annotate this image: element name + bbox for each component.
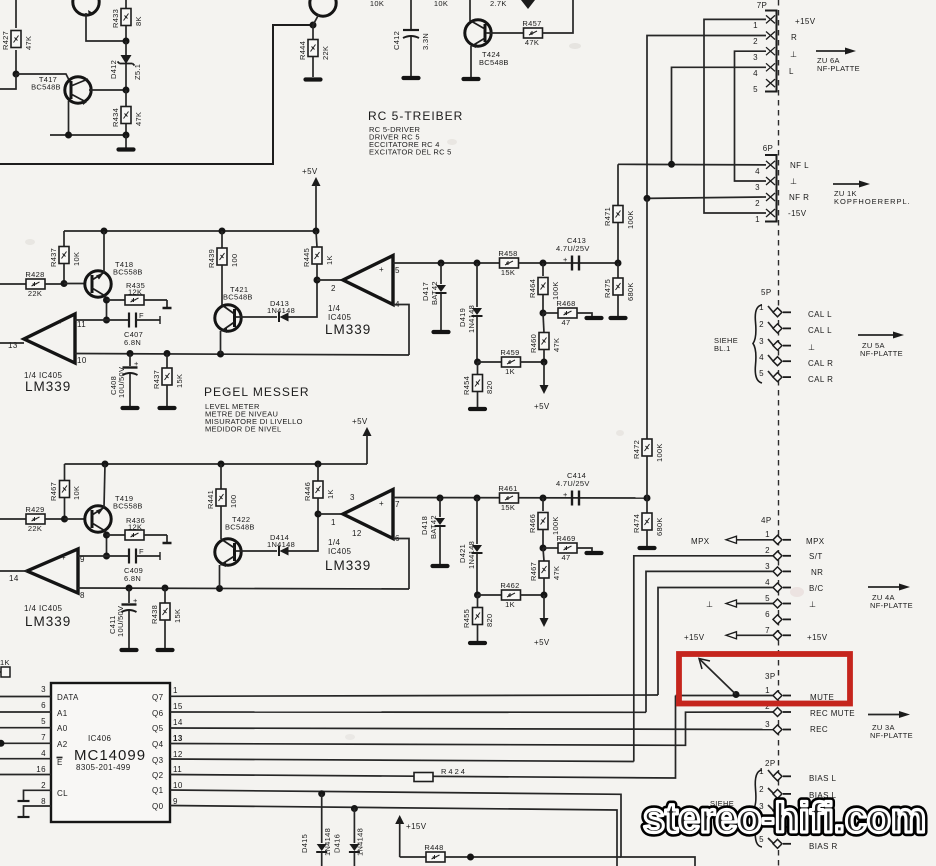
- wire: D414 to comparator node: [289, 514, 319, 551]
- resistor R448: [424, 843, 621, 862]
- node: rail/R446: [315, 461, 322, 468]
- svg-text:R471: R471: [603, 207, 612, 226]
- pin 2 of 2P (BIAS L): [759, 785, 791, 798]
- pin 3 of 3P (REC): [765, 720, 791, 734]
- diode D421 1N4148: [458, 498, 483, 595]
- wire: +15V to R448 row: [400, 856, 427, 858]
- svg-text:+5V: +5V: [534, 638, 550, 647]
- wire: T417 collector to node: [89, 89, 126, 91]
- wire: long rail y=164 to RC5 stage: [0, 25, 313, 164]
- svg-text:820: 820: [485, 381, 494, 394]
- IC406 MC14099 box: [51, 683, 170, 822]
- svg-text:1K: 1K: [326, 489, 335, 499]
- svg-text:CAL R: CAL R: [808, 375, 833, 384]
- svg-text:+15V: +15V: [406, 822, 427, 831]
- svg-text:NF-PLATTE: NF-PLATTE: [870, 601, 913, 610]
- svg-text:+5V: +5V: [534, 402, 550, 411]
- transistor T419: [85, 494, 143, 532]
- wire: Q2 row to MUTE riser: [170, 696, 676, 779]
- resistor R474: [632, 498, 664, 546]
- svg-text:+: +: [133, 596, 138, 605]
- connector 6P bracket: [763, 144, 777, 222]
- node: +5V stub junction: [541, 359, 548, 366]
- svg-text:IC405: IC405: [328, 313, 351, 322]
- svg-text:3: 3: [753, 53, 758, 62]
- svg-text:1: 1: [753, 21, 758, 30]
- svg-text:4: 4: [753, 69, 758, 78]
- node: +5V stub junction (lower): [541, 592, 548, 599]
- ground below R455: [470, 642, 485, 644]
- svg-text:12: 12: [352, 529, 362, 538]
- svg-text:A1: A1: [57, 709, 68, 718]
- red highlight rectangle: [679, 654, 850, 704]
- node: R438: [162, 585, 169, 592]
- svg-text:IC405: IC405: [328, 547, 351, 556]
- svg-text:NR: NR: [811, 568, 823, 577]
- wire: 7P pin4 (L) down to NF L node: [672, 67, 767, 164]
- ground below R434: [125, 135, 127, 148]
- svg-text:10U/50V: 10U/50V: [117, 367, 126, 398]
- svg-text:1: 1: [173, 686, 178, 695]
- svg-text:2.7K: 2.7K: [490, 0, 507, 8]
- svg-text:10: 10: [173, 781, 183, 790]
- svg-text:⊥: ⊥: [790, 177, 797, 186]
- svg-text:B/C: B/C: [809, 584, 824, 593]
- svg-text:3.3N: 3.3N: [421, 33, 430, 50]
- svg-text:BC548B: BC548B: [31, 83, 61, 92]
- svg-text:4: 4: [759, 353, 764, 362]
- svg-text:S/T: S/T: [809, 552, 823, 561]
- svg-text:+: +: [58, 317, 63, 326]
- svg-text:⊥: ⊥: [790, 50, 797, 59]
- wire: NF L row: [618, 163, 766, 166]
- node: R468 branch: [540, 310, 547, 317]
- wire: pin8 feedback row: [78, 588, 409, 589]
- capacitor C412: [392, 0, 430, 76]
- wire: output row y=497: [393, 497, 647, 500]
- diode D416: [333, 809, 365, 866]
- svg-text:1N4148: 1N4148: [323, 828, 332, 856]
- svg-text:8305-201-499: 8305-201-499: [76, 763, 131, 772]
- pin 2 of 3P (REC MUTE): [765, 702, 791, 717]
- svg-text:+: +: [379, 265, 384, 274]
- svg-text:R464: R464: [528, 279, 537, 298]
- svg-text:1N4148: 1N4148: [267, 306, 295, 315]
- svg-text:BC558B: BC558B: [113, 268, 143, 277]
- gnd output arrow: [706, 600, 773, 609]
- node: D416 junction on Q0 row: [351, 805, 358, 812]
- svg-text:RC 5-TREIBER: RC 5-TREIBER: [368, 109, 463, 123]
- svg-text:Q2: Q2: [152, 771, 164, 780]
- svg-text:15K: 15K: [501, 503, 515, 512]
- svg-text:1: 1: [765, 686, 770, 695]
- svg-text:15K: 15K: [175, 374, 184, 388]
- node: D419: [474, 260, 481, 267]
- node: R469 branch: [540, 545, 547, 552]
- svg-text:R434: R434: [111, 108, 120, 127]
- svg-text:L: L: [789, 67, 794, 76]
- svg-text:R427: R427: [1, 31, 10, 50]
- resistor R472: [632, 439, 664, 498]
- resistor R441: [206, 464, 238, 539]
- svg-text:NF L: NF L: [790, 161, 809, 170]
- pin 3 of 5P (gnd): [759, 337, 791, 350]
- transistor T424: [465, 0, 509, 77]
- svg-text:R444: R444: [298, 41, 307, 60]
- arrow ZU 3A: [868, 711, 913, 740]
- node: rail/T419 emitter: [102, 461, 109, 468]
- resistor R457: [522, 19, 542, 47]
- svg-text:7: 7: [41, 733, 46, 742]
- svg-text:-15V: -15V: [788, 209, 807, 218]
- svg-text:1: 1: [755, 215, 760, 224]
- svg-text:47K: 47K: [134, 112, 143, 126]
- svg-text:4.7U/25V: 4.7U/25V: [556, 244, 590, 253]
- arrow ZU 6A: [816, 48, 860, 74]
- svg-text:4: 4: [41, 749, 46, 758]
- resistor R444: [298, 25, 330, 77]
- svg-text:R455: R455: [462, 609, 471, 628]
- svg-text:+: +: [134, 359, 139, 368]
- labels right of 3P: [810, 693, 855, 734]
- wire: Q3 row: [170, 759, 634, 762]
- wire: Q0 row down to bottom: [170, 806, 617, 866]
- pin 3 of 2P: [759, 802, 791, 815]
- title PEGEL MESSER: [204, 385, 310, 434]
- wire: pin9 input: [78, 555, 107, 557]
- wire: pin16: [0, 774, 51, 776]
- capacitor C411 (electrolytic): [108, 588, 138, 648]
- resistor R467 (10K pull): [49, 464, 81, 519]
- ground below R444: [306, 79, 321, 81]
- svg-text:22K: 22K: [28, 289, 42, 298]
- svg-text:16: 16: [36, 765, 46, 774]
- node: R466: [540, 495, 547, 502]
- svg-text:1K: 1K: [325, 255, 334, 265]
- resistor R455: [462, 595, 494, 641]
- svg-text:6.8N: 6.8N: [124, 338, 141, 347]
- labels right of 4P: [806, 537, 828, 642]
- resistor R458: [498, 249, 518, 277]
- wire: node into R434: [125, 90, 127, 107]
- svg-text:+5V: +5V: [352, 417, 368, 426]
- pin numbers left of IC: [36, 685, 46, 806]
- svg-text:10U/50V: 10U/50V: [116, 606, 125, 637]
- node: R437b: [164, 350, 171, 357]
- svg-text:R460: R460: [529, 334, 538, 353]
- svg-text:3: 3: [765, 562, 770, 571]
- svg-text:BIAS L: BIAS L: [809, 774, 836, 783]
- svg-text:14: 14: [9, 574, 19, 583]
- stub bar pin8: [18, 816, 30, 818]
- svg-text:Z5.1: Z5.1: [133, 64, 142, 80]
- svg-text:R428: R428: [25, 270, 44, 279]
- wire: +5V rail upper: [64, 230, 316, 232]
- node: R433/D412 junction: [123, 38, 130, 45]
- svg-text:BC548B: BC548B: [479, 58, 509, 67]
- op-amp U1b LM339 (upper right): [325, 256, 400, 338]
- svg-text:1/4 IC405: 1/4 IC405: [24, 604, 62, 613]
- pin 1 of 6P: [766, 209, 775, 217]
- svg-text:2: 2: [759, 320, 764, 329]
- svg-text:1: 1: [765, 530, 770, 539]
- svg-text:8: 8: [41, 797, 46, 806]
- node: D418: [437, 495, 444, 502]
- wire: NR from pin3 down to Q6 row: [646, 571, 773, 712]
- svg-text:NF-PLATTE: NF-PLATTE: [817, 64, 860, 73]
- wire: T422 emitter down: [219, 565, 221, 589]
- node: A2 at left edge: [0, 740, 5, 747]
- svg-text:4: 4: [755, 167, 760, 176]
- resistor R466: [528, 498, 560, 548]
- svg-text:100K: 100K: [551, 281, 560, 300]
- pin 4 of 7P: [766, 63, 775, 71]
- svg-text:1N4148: 1N4148: [356, 828, 365, 856]
- svg-text:REC: REC: [810, 725, 828, 734]
- svg-text:Q5: Q5: [152, 724, 164, 733]
- svg-text:10: 10: [77, 356, 87, 365]
- svg-text:R429: R429: [25, 505, 44, 514]
- svg-text:3P: 3P: [765, 672, 776, 681]
- node: D417: [438, 260, 445, 267]
- capacitor C407: [107, 311, 161, 347]
- wire: 7P pin1 (+15V) down-around to 6P pin1: [704, 19, 766, 213]
- resistor R446: [303, 464, 335, 514]
- ground below R474: [640, 547, 655, 549]
- svg-text:BC548B: BC548B: [225, 523, 255, 532]
- svg-text:3: 3: [765, 720, 770, 729]
- pin 4 of 4P (B/C): [765, 578, 791, 592]
- svg-text:Q6: Q6: [152, 709, 164, 718]
- svg-text:KOPFHOERERPL.: KOPFHOERERPL.: [834, 197, 911, 206]
- svg-text:820: 820: [485, 614, 494, 627]
- svg-text:1/4: 1/4: [328, 538, 340, 547]
- wire: D413 to comparator node: [289, 280, 318, 317]
- svg-text:BIAS R: BIAS R: [809, 842, 838, 851]
- svg-text:⊥: ⊥: [706, 600, 713, 609]
- resistor R467b: [529, 548, 561, 595]
- svg-text:14: 14: [173, 718, 183, 727]
- svg-text:D416: D416: [333, 834, 342, 853]
- op-amp U1a LM339 (upper left): [8, 314, 87, 394]
- transistor T416 (cut at top edge): [73, 0, 99, 16]
- svg-text:A0: A0: [57, 724, 68, 733]
- wire: Q1 row down and right: [170, 790, 695, 866]
- svg-text:13: 13: [173, 734, 183, 743]
- svg-text:10K: 10K: [434, 0, 448, 8]
- node: C411: [126, 585, 133, 592]
- ground below R437b: [160, 407, 175, 409]
- wire: 7P pin2 (R) down to NF R node: [647, 36, 766, 199]
- dashed bus line: [778, 0, 780, 866]
- +5V supply arrow (upper): [302, 167, 321, 231]
- wire: 7P pin3 (gnd) down-around to 6P pin3: [735, 51, 767, 181]
- svg-text:100: 100: [230, 254, 239, 267]
- wire: T423 emitter to node: [313, 14, 319, 25]
- pin 2 of 5P (CAL L): [759, 320, 791, 333]
- pin 1 of 5P (CAL L): [759, 303, 791, 317]
- svg-text:⊥: ⊥: [808, 343, 815, 352]
- resistor R459: [478, 348, 545, 376]
- svg-text:12K: 12K: [128, 288, 142, 297]
- svg-text:12K: 12K: [128, 523, 142, 532]
- resistor R462: [478, 581, 545, 609]
- svg-text:11: 11: [173, 765, 182, 774]
- +5V arrow (comparator ref, lower): [534, 595, 550, 647]
- transistor T418: [85, 260, 143, 297]
- svg-text:R467: R467: [49, 482, 58, 501]
- node: NF L / 7P-4 junction: [668, 161, 675, 168]
- svg-text:C412: C412: [392, 31, 401, 50]
- wire: node to op-amp apex: [318, 513, 343, 515]
- pin numbers 6P: [755, 167, 760, 224]
- svg-text:R438: R438: [150, 605, 159, 624]
- watermark stereo-hifi.com: [643, 794, 926, 841]
- ground below C412: [404, 77, 419, 79]
- node: T423 emitter junction: [310, 22, 317, 29]
- svg-text:100K: 100K: [551, 516, 560, 535]
- svg-text:D415: D415: [300, 834, 309, 853]
- svg-text:4.7U/25V: 4.7U/25V: [556, 479, 590, 488]
- svg-text:6P: 6P: [763, 144, 774, 153]
- wire: B/C from pin4 down to Q7 row: [658, 588, 773, 696]
- ground below C411: [122, 649, 137, 651]
- svg-text:5: 5: [753, 85, 758, 94]
- svg-text:R474: R474: [632, 514, 641, 533]
- wire: Q5 row to REC pin: [170, 728, 773, 730]
- node: R448 row junction: [467, 854, 474, 861]
- wire: A2 pin7: [0, 742, 51, 744]
- svg-text:6: 6: [41, 701, 46, 710]
- svg-text:5: 5: [41, 717, 46, 726]
- node: C413/R471: [615, 260, 622, 267]
- wire: base into T419: [65, 518, 87, 520]
- svg-text:R437: R437: [152, 370, 161, 389]
- svg-text:PEGEL MESSER: PEGEL MESSER: [204, 385, 310, 399]
- svg-text:R457: R457: [522, 19, 541, 28]
- svg-text:1K: 1K: [505, 600, 515, 609]
- arrow ZU 5A: [858, 332, 904, 359]
- svg-text:R448: R448: [424, 843, 443, 852]
- resistor R427: [1, 31, 33, 51]
- svg-text:CAL R: CAL R: [808, 359, 833, 368]
- svg-text:BAT42: BAT42: [430, 281, 439, 305]
- node: emitter rail right: [123, 132, 130, 139]
- wire: pin8 with stub: [24, 806, 52, 816]
- pin 5 of 2P (BIAS R): [759, 835, 791, 848]
- resistor R454: [462, 362, 494, 407]
- svg-text:stereo-hifi.com: stereo-hifi.com: [643, 794, 926, 841]
- wire: A0 pin5: [0, 727, 51, 729]
- diode D418 BAT42: [420, 498, 446, 564]
- svg-text:R441: R441: [206, 490, 215, 509]
- svg-text:LM339: LM339: [325, 322, 371, 337]
- svg-text:3: 3: [350, 493, 355, 502]
- resistor R468: [543, 299, 592, 327]
- node: NF R junction: [644, 195, 651, 202]
- wire: T419 collector down: [106, 532, 108, 557]
- svg-text:R467: R467: [529, 562, 538, 581]
- svg-text:⊥: ⊥: [809, 600, 816, 609]
- node: T422 emitter: [216, 585, 223, 592]
- pin 7 of 4P (+15V): [765, 626, 791, 640]
- pin numbers right of IC: [173, 686, 183, 806]
- node: rail/R445: [313, 228, 320, 235]
- svg-text:R461: R461: [498, 484, 517, 493]
- svg-text:15K: 15K: [501, 268, 515, 277]
- resistor R428: [0, 270, 64, 298]
- diode D414: [267, 533, 295, 556]
- pin 4 of 2P: [759, 818, 791, 832]
- svg-text:EXCITATOR DEL RC 5: EXCITATOR DEL RC 5: [369, 148, 452, 157]
- node: comparator output node: [314, 277, 321, 284]
- pin 1 of 3P (MUTE): [765, 686, 791, 700]
- connector 7P bracket: [757, 1, 777, 92]
- svg-text:2: 2: [755, 199, 760, 208]
- brace SIEHE BL.1: [753, 305, 762, 383]
- svg-text:1: 1: [759, 767, 764, 776]
- svg-text:R468: R468: [556, 299, 575, 308]
- ground below C408: [123, 407, 138, 409]
- svg-text:+: +: [379, 499, 384, 508]
- wire: DATA pin3: [0, 696, 51, 698]
- svg-text:R: R: [791, 33, 797, 42]
- node: R436 branch: [103, 532, 110, 539]
- svg-text:NF-PLATTE: NF-PLATTE: [870, 731, 913, 740]
- svg-text:R466: R466: [528, 514, 537, 533]
- wire: MUTE line: [676, 695, 774, 697]
- svg-text:NF R: NF R: [789, 193, 809, 202]
- +15V supply arrow (bottom): [395, 815, 427, 857]
- wire: node to D412: [125, 41, 127, 55]
- wire: R427 to base node: [15, 50, 17, 74]
- wire: base wire to T417: [16, 74, 71, 84]
- svg-text:2: 2: [765, 546, 770, 555]
- svg-text:LM339: LM339: [25, 614, 71, 629]
- wire: T418 emitter up to rail: [103, 231, 105, 273]
- pin 4 of 5P (CAL R): [759, 353, 791, 366]
- svg-text:11: 11: [77, 320, 86, 329]
- svg-text:100K: 100K: [626, 210, 635, 229]
- capacitor C409: [107, 547, 161, 583]
- node: D421: [474, 495, 481, 502]
- svg-text:9: 9: [173, 797, 178, 806]
- svg-text:CAL L: CAL L: [808, 310, 832, 319]
- power symbol (top, filled): [521, 0, 535, 9]
- svg-text:CAL L: CAL L: [808, 326, 832, 335]
- op-amp U1d LM339 (lower right): [325, 490, 400, 574]
- pin 2 of 4P (S/T): [765, 546, 791, 560]
- svg-text:8: 8: [80, 591, 85, 600]
- node: C414/R472: [644, 495, 651, 502]
- svg-text:E: E: [57, 758, 63, 767]
- node: R462/D421 junction: [474, 592, 481, 599]
- wire: +5V rail lower: [65, 463, 368, 465]
- ground below R454: [470, 408, 485, 410]
- svg-text:10K: 10K: [72, 486, 81, 500]
- pin 5 of 5P (CAL R): [759, 369, 791, 382]
- MPX output arrow: [691, 536, 773, 546]
- svg-text:MC14099: MC14099: [74, 747, 146, 764]
- arrow ZU 1K: [833, 181, 911, 207]
- svg-text:680K: 680K: [655, 517, 664, 536]
- wire: left vertical into R427: [15, 0, 17, 28]
- svg-text:47K: 47K: [552, 566, 561, 580]
- resistor R429: [0, 505, 65, 533]
- stub bar CL: [18, 800, 30, 802]
- svg-text:680K: 680K: [626, 282, 635, 301]
- svg-text:R437: R437: [49, 248, 58, 267]
